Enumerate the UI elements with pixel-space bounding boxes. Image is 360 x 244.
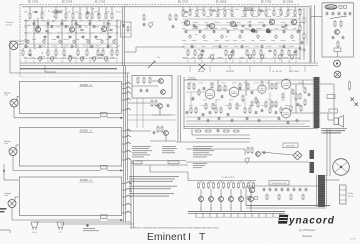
tube label E - EL 34 [272, 71, 282, 73]
mixer stage resistor R63a [228, 182, 230, 189]
mixer stage label 2 [220, 208, 222, 210]
rectifier tube V6 GZ34 [333, 159, 350, 176]
capacitor C21 [57, 35, 60, 39]
wire vertical [47, 19, 49, 48]
resistor R311 top row right [265, 9, 267, 16]
supply rail top [22, 6, 310, 8]
input jack #1 [10, 99, 18, 107]
echo box parts [137, 77, 151, 93]
value label cluster [53, 11, 63, 14]
resistor R20 lower row [22, 49, 24, 56]
potentiometer P11 [50, 56, 54, 62]
module pin 3.4 [122, 203, 131, 205]
wire drop R38 [244, 7, 246, 9]
echo send nested wires [186, 129, 250, 142]
diagonal arrow [148, 61, 155, 68]
resistor R30 top row right [182, 9, 184, 16]
mixer stage resistor R65a [248, 182, 250, 189]
tube label ECC 808 [290, 71, 300, 73]
output wires [320, 84, 334, 120]
resistor R39 top row right [251, 9, 253, 16]
wire J1 to preamp [9, 41, 28, 73]
capacitor C38 [297, 30, 300, 34]
module pin 3.1 [122, 182, 131, 184]
label 10k corridor [157, 57, 160, 59]
resistor R49 lower row right [281, 49, 283, 56]
resistor R110 top row [111, 12, 113, 19]
wire drop R312 [273, 7, 275, 9]
label R26 [86, 48, 89, 50]
preamp enclosure dashed border [20, 5, 300, 78]
psu right wires [325, 175, 348, 194]
echo send parts row [195, 129, 240, 133]
tube label EF 86 [198, 71, 205, 73]
title Eminent I T [147, 232, 206, 243]
label R23 [55, 48, 58, 50]
mixer bottom rail [188, 211, 285, 213]
text block T4 [193, 163, 207, 168]
wire drop R39 [251, 7, 253, 9]
echo stage Q12 [151, 100, 169, 109]
capacitor C15 [107, 22, 110, 26]
preamp right column wires [300, 8, 307, 60]
module pin 1.1 [122, 82, 131, 84]
transistor Q5 [209, 23, 214, 28]
oscillator trim rects [339, 6, 347, 9]
wire vertical [33, 19, 35, 48]
capacitor C36 [269, 30, 272, 34]
junction dots [28, 8, 282, 60]
interstage wires right [183, 19, 300, 59]
corridor pot [149, 21, 154, 28]
mixer stage resistor R61a [208, 182, 210, 189]
capacitor C37 [283, 30, 286, 34]
ot core lines [313, 77, 320, 128]
din plug P1 label [32, 232, 36, 234]
mixer transistor Q24 [239, 197, 244, 202]
dark junction blob 1 [251, 29, 254, 32]
pa h wires [186, 90, 305, 124]
resistor R36 top row right [224, 9, 226, 16]
electrolytic C60 [189, 34, 192, 39]
echo send transistor Q14 [256, 152, 261, 157]
corridor component [143, 14, 146, 27]
label R25 [77, 48, 80, 50]
psu res row [266, 194, 304, 201]
psu bottom rail [246, 206, 330, 209]
wire R110 drop [111, 7, 113, 12]
long wire y165 [135, 164, 188, 166]
logo Dynacord [278, 215, 335, 227]
dark junction blob 2 [266, 29, 269, 32]
echo stage Q12 wires [128, 103, 172, 115]
transistor type label BC 305 B at x=221 [216, 1, 227, 4]
label R21 [29, 48, 32, 50]
wire input bottom run [10, 72, 130, 74]
capacitor C10 [33, 22, 36, 26]
label R27 [97, 48, 100, 50]
label R22 [47, 48, 50, 50]
module box MODEL - A #1 [19, 82, 121, 114]
module label MODEL - A #1 [79, 84, 93, 87]
echo send parts [245, 147, 265, 164]
resistor R28 lower row [102, 49, 104, 56]
resistor R21 lower row [29, 49, 31, 56]
transistor type label BC 173 B at x=266 [261, 1, 272, 4]
pa left edge [183, 77, 185, 129]
transistor Q8 [291, 19, 296, 24]
potentiometer P10 [38, 56, 42, 62]
pa tube V5 EL34 [281, 107, 291, 120]
wire vertical [75, 19, 77, 48]
mixer feet line [195, 216, 283, 218]
mixer stage label 5 [250, 208, 252, 210]
input jack wire #3 [12, 197, 123, 221]
pa verticals [218, 80, 303, 96]
trunk vertical wires right [131, 160, 134, 228]
mixer stage wires 2 [220, 181, 222, 212]
preamp right column parts [299, 9, 306, 52]
potentiometer P12 [68, 56, 72, 62]
resistor R40 lower row right [187, 49, 189, 56]
mixer pin ticks [196, 213, 280, 217]
mixer row label [221, 177, 235, 179]
underline chip 1 [132, 161, 142, 165]
dark cluster blobs [28, 9, 296, 57]
wire drop R35 [217, 7, 219, 9]
wire R19 drop [105, 7, 107, 12]
bridge rectifier diamond [293, 151, 302, 160]
pa feed verticals [178, 75, 181, 142]
potentiometer P25 [278, 54, 282, 60]
resistor R10 top row [29, 12, 31, 19]
bus rail 1 [20, 62, 318, 64]
module pin 2.3 [122, 142, 131, 144]
input jack wire #2 [13, 145, 123, 172]
capacitor C24 [95, 35, 98, 39]
electrolytic C65 [275, 34, 278, 39]
transistor Q4 [184, 20, 189, 25]
wire Q3 collector [103, 19, 105, 26]
wire vertical [25, 19, 27, 48]
resistor R29 lower row [111, 49, 113, 56]
mixer stage resistor R63b [233, 182, 235, 189]
electrolytic C52 [59, 39, 62, 44]
corridor wires [123, 7, 125, 66]
resistor R13 top row [65, 12, 67, 19]
echo stage Q13 wires [128, 131, 176, 141]
mixer transistor Q22 [219, 197, 224, 202]
pa long feedback wire [186, 120, 310, 122]
pa top rail [184, 79, 314, 81]
resistor R15 top row [79, 12, 81, 19]
wire R14 drop [72, 7, 74, 12]
input jack J1 label [6, 22, 13, 26]
resistor R46 lower row right [253, 49, 255, 56]
mixer stage wires 1 [210, 181, 212, 212]
corridor parts right [169, 14, 177, 29]
capacitor C34 [241, 30, 244, 34]
resistor R18 top row [98, 12, 100, 19]
mixer transistor Q20 [199, 197, 204, 202]
potentiometer P20 [198, 54, 202, 60]
input jack label #2 [4, 141, 11, 145]
pa tube V2 parts [229, 87, 244, 110]
imp contacts 2 [329, 109, 338, 113]
din plug P2 label [59, 232, 63, 234]
oscillator arrow [330, 16, 347, 19]
input jack #2 [9, 148, 17, 156]
resistor R11 top row [41, 12, 43, 19]
pa lower caps [186, 111, 278, 117]
pa input resistors [188, 83, 205, 96]
mixer stage resistor R65b [253, 182, 255, 189]
pa fill parts 2 [211, 81, 294, 107]
potentiometer P24 [260, 54, 264, 60]
mixer stage resistor R64a [238, 182, 240, 189]
echo transistor Q10 [159, 79, 164, 84]
text block T2 [162, 146, 177, 153]
resistor R26 lower row [86, 49, 88, 56]
pa tube V3 parts [257, 101, 267, 113]
module notch #1 [101, 113, 108, 117]
label R210 [116, 48, 119, 50]
bus rail dark [20, 68, 117, 70]
module label MODEL - C #2 [79, 131, 93, 133]
electrolytic C56 [113, 39, 116, 44]
output resistor [349, 81, 351, 91]
echo column wires [128, 98, 176, 128]
transistor type label BC 305 B at x=288 [283, 1, 294, 4]
mixer left feed [150, 165, 188, 181]
module pin 1.2 [122, 87, 131, 89]
module pin 2.4 [122, 150, 131, 152]
mains selector S1 [340, 185, 347, 204]
ground note text [83, 228, 99, 231]
module box MODEL - A #3 [19, 177, 121, 216]
long wire y160 [135, 160, 186, 162]
potentiometer P22 [228, 54, 232, 60]
echo box [132, 76, 172, 99]
psu lamp 1 [247, 196, 251, 200]
resistor R43 lower row right [225, 49, 227, 56]
input jack #3 [8, 200, 16, 208]
transistor Q6 [230, 21, 235, 26]
resistor R47 lower row right [260, 49, 262, 56]
potentiometer P26 [290, 54, 294, 60]
t2 core lines [317, 175, 326, 207]
connector ring B [334, 71, 341, 78]
module pin 1.4 [122, 98, 131, 100]
resistor R410 lower row right [288, 49, 290, 56]
mixer stage wires 4 [240, 181, 242, 212]
left edge dark mark [0, 208, 7, 212]
label R28 [102, 48, 105, 50]
resistor R19 top row [105, 12, 107, 19]
mixer stage label 4 [240, 208, 242, 210]
wire R13 drop [65, 7, 67, 12]
rail to pa ticks [190, 66, 305, 73]
psu transistor Q30 [249, 187, 254, 192]
psu lamp 2 [254, 196, 258, 200]
psu label SILIZIUM [269, 181, 289, 186]
transistor type label BC 173 B at x=33 [28, 1, 39, 4]
pa coupling parts [247, 83, 257, 104]
resistor R411 lower row right [295, 49, 297, 56]
capacitor C12 [61, 22, 64, 26]
wire drop R313 [280, 7, 282, 9]
wire vertical [89, 19, 91, 48]
module pin 3.2 [122, 188, 131, 190]
oscillator resistor pair [334, 20, 342, 27]
resistor R24 lower row [63, 49, 65, 56]
trunk bottom wires [34, 222, 134, 224]
resistor R44 lower row right [232, 49, 234, 56]
faint extra parts right [191, 24, 288, 49]
potentiometer P15 [104, 56, 108, 62]
module pin 3.3 [122, 195, 131, 197]
potentiometer P13 [80, 56, 84, 62]
mixer stage label 3 [230, 208, 232, 210]
label 50Hz [348, 193, 354, 198]
label R24 [63, 48, 66, 50]
rect label GLEICHR [283, 143, 298, 148]
transistor Q7 [269, 19, 274, 24]
echo stage Q13 [153, 126, 169, 136]
corridor box [121, 22, 132, 37]
din plug P2 [57, 222, 64, 230]
resistor R31 top row right [189, 9, 191, 16]
bottom left wire [0, 230, 10, 233]
resistor R22 lower row [47, 49, 49, 56]
power transformer T2 [318, 175, 325, 207]
mixer transistor Q23 [229, 197, 234, 202]
resistor R25 lower row [77, 49, 79, 56]
pa tube V2 ECC83 [229, 86, 239, 99]
pa tube V4 EL34 [281, 78, 291, 91]
mixer stage resistor R62b [223, 182, 225, 189]
capacitor C20 [44, 35, 47, 39]
logo sub 1 [299, 229, 317, 232]
wire R16 drop [86, 7, 88, 12]
oscillator feed wires [311, 5, 322, 62]
right mid text [323, 130, 345, 133]
electrolytic C55 [101, 39, 104, 44]
capacitor C32 [213, 30, 216, 34]
notes numbered list [129, 176, 179, 197]
text block T3 [193, 146, 214, 157]
resistor R32 top row right [196, 9, 198, 16]
psu link verticals [327, 129, 330, 176]
module notch #2 [101, 165, 108, 169]
wire vertical [107, 19, 109, 48]
wire R18 drop [98, 7, 100, 12]
mixer stage wires 3 [230, 181, 232, 212]
corner ref [350, 239, 356, 241]
transistor Q3 BC173B [101, 26, 106, 31]
resistor R23 lower row [55, 49, 57, 56]
wire R17 drop [91, 7, 93, 12]
resistor R313 top row right [280, 9, 282, 16]
interstage wires left [24, 21, 118, 59]
resistor R35 top row right [217, 9, 219, 16]
pa lower resistor row [190, 105, 302, 114]
output transformer T1 [314, 77, 319, 128]
module box MODEL - C #2 [19, 128, 121, 167]
small transformer bars [310, 150, 315, 173]
electrolytic C61 [203, 34, 206, 39]
module notch #3 [101, 215, 108, 219]
resistor R48 lower row right [274, 49, 276, 56]
wire drop R32 [196, 7, 198, 9]
wire R15 drop [79, 7, 81, 12]
pa mid resistors [219, 85, 226, 99]
faint extra parts left [25, 25, 110, 49]
revision text line [130, 227, 219, 230]
pa label texture [188, 83, 303, 101]
echo wires [132, 81, 159, 86]
mixer stage label 1 [210, 208, 212, 210]
input jack J1 [9, 41, 18, 50]
module label MODEL - A #3 [79, 179, 93, 182]
psu wires [246, 186, 318, 206]
capacitor C25 [109, 35, 112, 39]
module pin 2.5 [122, 158, 131, 160]
left edge wires [3, 164, 19, 180]
mixer top rail [188, 180, 256, 182]
electrolytic C66 [291, 34, 294, 39]
wire R10 drop [29, 7, 31, 12]
oscillator cap row [326, 12, 352, 16]
oscillator bottom parts [334, 48, 341, 57]
transistor Q2 BC173B [69, 27, 74, 32]
capacitor C11 [47, 22, 50, 26]
resistor R210 lower row [116, 49, 118, 56]
wire R12 drop [55, 7, 57, 12]
electrolytic C63 [239, 34, 242, 39]
mixer stage wires 0 [200, 181, 202, 212]
resistor R38 top row right [244, 9, 246, 16]
pa tube V3 [258, 83, 266, 94]
resistor R16 top row [86, 12, 88, 19]
text block T1 [132, 146, 152, 157]
pa model tag [187, 78, 197, 80]
rail drop ticks [26, 60, 296, 64]
oscillator transistor [335, 30, 340, 35]
long wire y142 [176, 141, 250, 143]
resistor R310 top row right [258, 9, 260, 16]
mixer stage resistor R60b [203, 182, 205, 189]
wire drop R310 [258, 7, 260, 9]
electrolytic C51 [43, 39, 46, 44]
module pin 2.1 [122, 129, 131, 131]
resistor R314 top row right [287, 9, 289, 16]
mixer bottom rail 2 [188, 212, 285, 214]
psu cap row [263, 188, 308, 192]
din plug P1 [31, 222, 38, 230]
label R29 [111, 48, 114, 50]
output jack crosses [351, 98, 359, 107]
staircase wire [125, 47, 185, 52]
pa tube V1 EF86 [205, 88, 215, 101]
pa hv parts [304, 87, 310, 106]
module pin 3.5 [122, 211, 131, 213]
resistor R41 lower row right [194, 49, 196, 56]
wire vertical [116, 19, 118, 48]
input jack label #1 [4, 93, 11, 97]
potentiometer P23 [248, 54, 252, 60]
input jack label #3 [4, 193, 11, 197]
